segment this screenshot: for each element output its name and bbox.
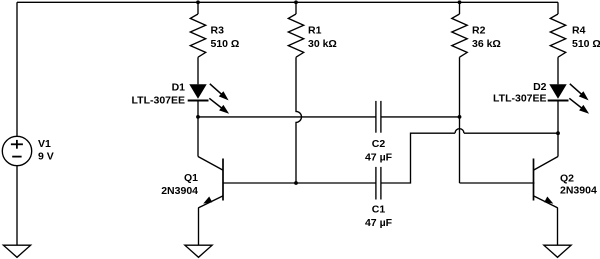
svg-text:D1: D1 bbox=[172, 82, 186, 94]
wire C2 to R2 junction bbox=[381, 116, 460, 118]
wire R1 lower lead with hop over node A wire bbox=[296, 57, 302, 183]
svg-text:R4: R4 bbox=[572, 25, 586, 37]
wire R2 top lead bbox=[459, 2, 461, 14]
node top rail R1 bbox=[294, 0, 298, 4]
resistor R2 bbox=[452, 14, 467, 57]
svg-text:C1: C1 bbox=[372, 204, 386, 216]
label V1 value bbox=[38, 138, 54, 162]
wire node to C1 bbox=[296, 182, 376, 184]
wire Q1 emitter bbox=[198, 208, 200, 246]
resistor R4 bbox=[550, 14, 565, 57]
label Q1 value bbox=[161, 172, 198, 197]
wire R1 top lead bbox=[295, 2, 297, 14]
ground (V1) bbox=[3, 245, 30, 257]
label C2 value bbox=[365, 138, 393, 164]
transistor Q1 bbox=[198, 117, 223, 208]
LED D1 bbox=[188, 84, 229, 114]
wire C1 to node B riser bbox=[381, 133, 455, 183]
wire D2 to node B bbox=[557, 101, 559, 134]
node B bbox=[556, 131, 560, 135]
wire node A to C2 bbox=[198, 116, 376, 118]
svg-text:R1: R1 bbox=[308, 25, 322, 37]
resistor R1 bbox=[288, 14, 303, 57]
capacitor C1 bbox=[376, 167, 381, 200]
label C1 value bbox=[365, 204, 393, 230]
svg-text:D2: D2 bbox=[533, 81, 547, 93]
svg-text:Q1: Q1 bbox=[184, 172, 198, 184]
capacitor C2 bbox=[376, 101, 381, 133]
node top rail R3 bbox=[196, 0, 200, 4]
label R2 value bbox=[472, 25, 501, 50]
svg-text:C2: C2 bbox=[372, 138, 386, 150]
svg-text:2N3904: 2N3904 bbox=[161, 185, 198, 197]
wire R3 top lead bbox=[197, 2, 199, 14]
wire R4 top lead bbox=[557, 2, 559, 14]
svg-text:LTL-307EE: LTL-307EE bbox=[132, 94, 185, 106]
svg-text:30 kΩ: 30 kΩ bbox=[308, 38, 337, 50]
resistor R3 bbox=[190, 14, 205, 57]
wire R3 to D1 bbox=[197, 57, 199, 84]
wire R4 to D2 bbox=[557, 57, 559, 84]
wire V1 top lead bbox=[16, 2, 18, 136]
svg-text:510 Ω: 510 Ω bbox=[572, 38, 600, 50]
wire R2 lower lead bbox=[459, 57, 461, 183]
transistor Q2 bbox=[534, 133, 559, 208]
label R4 value bbox=[572, 25, 600, 50]
ground (Q2) bbox=[544, 245, 571, 257]
wire D1 to node A bbox=[197, 101, 199, 117]
svg-text:36 kΩ: 36 kΩ bbox=[472, 38, 501, 50]
label D2 value bbox=[493, 81, 547, 105]
wire top rail bbox=[17, 1, 558, 3]
node R1-C1-Q1 base bbox=[294, 181, 298, 185]
wire V1 bottom lead bbox=[16, 166, 18, 245]
svg-text:LTL-307EE: LTL-307EE bbox=[493, 93, 546, 105]
wire R2 to Q2 base bbox=[460, 182, 535, 184]
svg-text:Q2: Q2 bbox=[560, 173, 574, 185]
node C2-R2 bbox=[458, 115, 462, 119]
wire hop over R2 lead bbox=[455, 129, 464, 134]
wire to node B bbox=[464, 132, 558, 134]
LED D2 bbox=[548, 84, 589, 114]
wire Q1 base to node bbox=[223, 182, 296, 184]
svg-text:510 Ω: 510 Ω bbox=[211, 38, 240, 50]
svg-text:47 µF: 47 µF bbox=[365, 217, 393, 229]
wire Q2 emitter bbox=[557, 208, 559, 246]
svg-text:R2: R2 bbox=[472, 25, 486, 37]
label D1 value bbox=[132, 82, 186, 107]
svg-text:9 V: 9 V bbox=[38, 150, 54, 162]
voltage source V1 bbox=[2, 136, 31, 165]
label R3 value bbox=[211, 25, 240, 50]
svg-text:R3: R3 bbox=[211, 25, 225, 37]
svg-text:2N3904: 2N3904 bbox=[560, 185, 597, 197]
svg-text:V1: V1 bbox=[38, 138, 51, 150]
node A bbox=[196, 115, 200, 119]
label Q2 value bbox=[560, 173, 597, 197]
ground (Q1) bbox=[185, 245, 212, 257]
node top rail R2 bbox=[458, 0, 462, 4]
label R1 value bbox=[308, 25, 337, 50]
svg-text:47 µF: 47 µF bbox=[365, 152, 393, 164]
